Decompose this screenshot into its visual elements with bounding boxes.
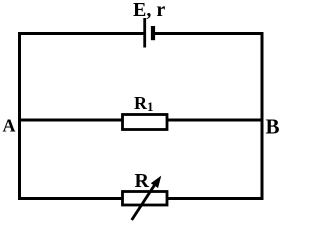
svg-text:R1: R1: [134, 93, 154, 114]
resistor R1: [123, 115, 168, 130]
rheostat arrowhead: [152, 177, 161, 188]
svg-text:E, r: E, r: [133, 0, 165, 21]
rheostat arrow shaft: [132, 182, 157, 220]
battery E,r long plate: [143, 18, 146, 48]
wire: top right segment from battery: [153, 32, 264, 35]
wire: right vertical B-branch: [261, 32, 264, 200]
wire: middle right segment R1 to B: [167, 119, 264, 122]
rheostat R box: [123, 192, 168, 206]
wire: left vertical A-branch: [18, 32, 21, 200]
svg-text:R: R: [135, 170, 150, 192]
battery E,r short plate: [151, 26, 155, 40]
wire: middle left segment A to R1: [18, 119, 122, 122]
wire: bottom right segment from R: [167, 197, 264, 200]
svg-text:B: B: [266, 115, 280, 139]
wire: bottom left segment to R: [18, 197, 122, 200]
svg-text:A: A: [3, 116, 16, 136]
wire: top left segment to battery: [18, 32, 144, 35]
